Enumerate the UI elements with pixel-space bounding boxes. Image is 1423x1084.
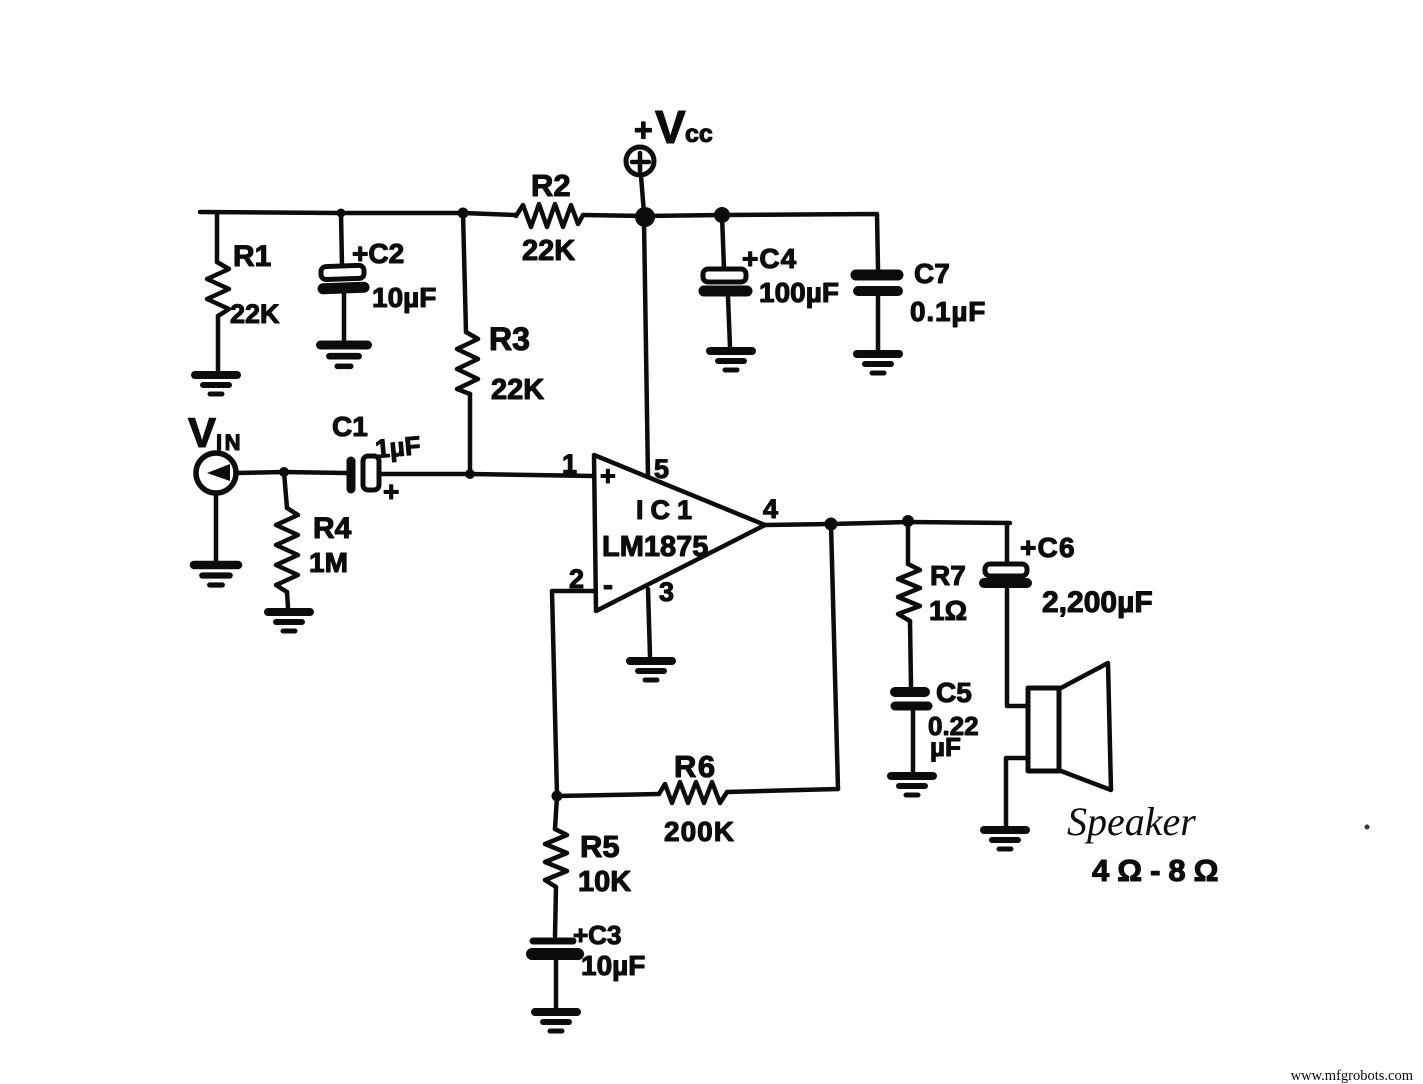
svg-text:0.1µF: 0.1µF [910, 296, 986, 327]
resistor R7 [898, 521, 920, 687]
svg-text:R3: R3 [489, 321, 530, 357]
capacitor C3 [532, 941, 578, 1008]
node junction R3 bottom [465, 469, 475, 479]
wire Vcc to rail [641, 176, 644, 213]
svg-text:22K: 22K [491, 374, 544, 406]
svg-text:1: 1 [562, 449, 577, 479]
ground C2 [320, 345, 367, 366]
svg-text:5: 5 [654, 454, 669, 484]
resistor R3 [457, 213, 478, 474]
node junction C2 on rail [337, 209, 346, 218]
svg-text:4Ω-8Ω: 4Ω-8Ω [1092, 853, 1227, 888]
svg-text:4: 4 [763, 494, 778, 524]
svg-text:10µF: 10µF [372, 282, 436, 313]
svg-text:22K: 22K [522, 235, 575, 267]
svg-text:C7: C7 [914, 258, 950, 289]
svg-text:+: + [634, 112, 653, 148]
capacitor C1 [351, 456, 379, 490]
svg-text:V: V [188, 409, 216, 456]
wire Vin to ground [214, 493, 219, 561]
resistor R6 [659, 782, 727, 803]
svg-text:LM1875: LM1875 [602, 531, 708, 563]
svg-text:+: + [383, 476, 399, 507]
node junction feedback [825, 518, 838, 531]
svg-text:R1: R1 [233, 240, 271, 273]
wire R6 left lead [557, 794, 659, 796]
ground R1 [195, 375, 237, 394]
source Vin [196, 453, 236, 493]
resistor R5 [545, 796, 567, 936]
svg-text:1Ω: 1Ω [929, 595, 967, 626]
svg-text:1M: 1M [309, 547, 348, 578]
node junction C4 [714, 207, 730, 223]
svg-text:µF: µF [930, 732, 961, 762]
svg-text:C5: C5 [936, 677, 972, 708]
resistor R1 [207, 213, 229, 372]
resistor R2 [516, 204, 583, 227]
wire op-amp output [765, 522, 1010, 525]
node junction Vcc big dot [635, 207, 655, 227]
pin 5 wire [644, 221, 648, 477]
speaker SP1 [1028, 663, 1111, 790]
svg-text:10µF: 10µF [581, 950, 645, 981]
ground Vin [194, 565, 238, 585]
pin 3 wire [648, 589, 650, 657]
svg-text:+: + [600, 461, 616, 491]
svg-text:+C3: +C3 [573, 920, 621, 950]
svg-text:R5: R5 [580, 829, 620, 864]
svg-text:+C4: +C4 [742, 243, 797, 274]
node junction R3 on rail [458, 208, 469, 219]
ground R4 [268, 612, 310, 631]
capacitor C2 [321, 213, 364, 340]
svg-text:10K: 10K [578, 866, 631, 898]
svg-text:-: - [603, 569, 613, 602]
ground pin 3 [630, 661, 672, 680]
label +Vcc [634, 101, 713, 153]
ground C5 [891, 776, 933, 795]
capacitor C5 [895, 692, 928, 771]
svg-text:www.mfgrobots.com: www.mfgrobots.com [1291, 1068, 1414, 1084]
wire Vin to C1 [236, 472, 346, 473]
capacitor C6 [984, 523, 1028, 706]
svg-text:22K: 22K [230, 299, 280, 329]
wire feedback vertical [831, 524, 838, 789]
wire C1 to op-amp pin 1 [379, 474, 594, 476]
node junction R5/R6 [552, 791, 563, 802]
power +Vcc symbol [626, 147, 654, 175]
label Vin [188, 409, 243, 456]
wire top rail right segment [583, 214, 878, 269]
svg-text:cc: cc [685, 120, 713, 148]
stray ink dot [1365, 825, 1370, 830]
svg-text:R4: R4 [313, 512, 352, 545]
wire top rail left segment [200, 212, 516, 215]
ground C7 [857, 354, 899, 373]
svg-text:IN: IN [216, 430, 243, 455]
resistor R4 [276, 472, 298, 608]
svg-text:200K: 200K [664, 816, 735, 847]
node junction R4 [279, 467, 289, 477]
pin 2 wire [552, 591, 594, 795]
svg-text:2,200µF: 2,200µF [1042, 586, 1153, 619]
svg-text:1µF: 1µF [374, 430, 422, 464]
node junction R7 [902, 515, 914, 527]
svg-text:+C6: +C6 [1020, 532, 1076, 563]
capacitor C4 [703, 215, 747, 347]
svg-text:+C2: +C2 [352, 238, 404, 269]
svg-text:IC1: IC1 [636, 495, 699, 525]
ground C4 [710, 351, 752, 370]
wire R6 right lead [727, 789, 838, 792]
svg-text:100µF: 100µF [759, 277, 839, 308]
ground speaker [984, 830, 1026, 849]
svg-text:C1: C1 [332, 411, 368, 442]
op-amp U1 triangle [594, 455, 765, 611]
ground C3 [535, 1012, 577, 1031]
capacitor C7 [856, 275, 898, 350]
svg-text:R7: R7 [930, 560, 966, 591]
svg-text:Speaker: Speaker [1067, 799, 1196, 844]
wire speaker bottom stub [1006, 758, 1028, 826]
svg-text:R2: R2 [531, 168, 571, 203]
svg-text:3: 3 [659, 577, 674, 607]
svg-text:V: V [655, 101, 686, 153]
svg-text:R6: R6 [674, 749, 717, 784]
